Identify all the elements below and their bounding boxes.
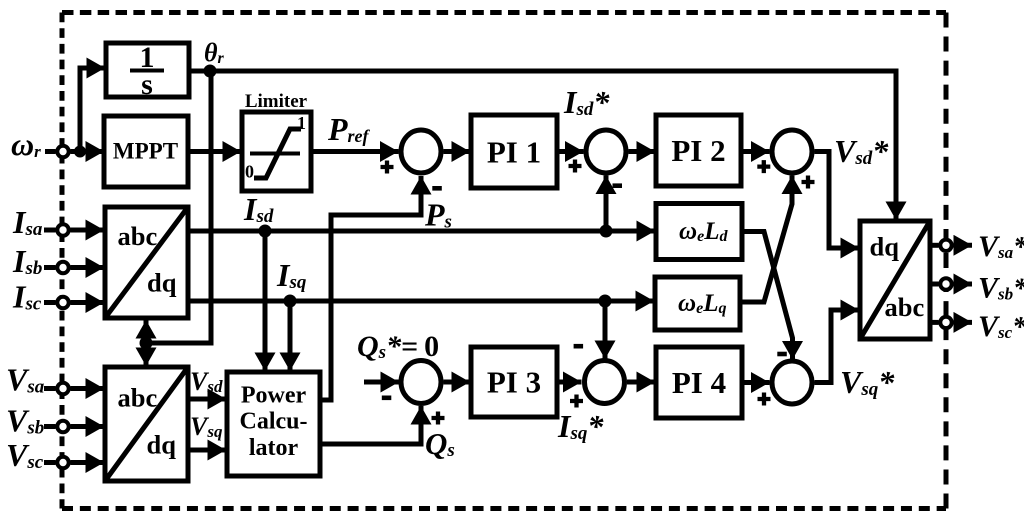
svg-text:Calcu-: Calcu- <box>240 409 308 435</box>
svg-text:abc: abc <box>885 292 925 322</box>
wire Pref limiter to sum1 <box>311 149 399 154</box>
summing junction sum3 <box>772 130 812 173</box>
wire Ps power calc to sum1 <box>320 176 421 400</box>
wire PI3 to sum6 <box>557 380 582 385</box>
dashed system boundary top <box>62 10 946 15</box>
wire Vsb* output stub <box>930 282 939 287</box>
terminal omega_r <box>57 146 68 157</box>
wire Vsq to power calculator <box>188 448 226 453</box>
wire weLd cross to sum7 <box>742 232 793 360</box>
wire theta to abc/dq 1 (arrow up) <box>144 320 149 343</box>
block abc/dq current transform <box>105 207 188 318</box>
wire PI2 to sum3 <box>741 149 770 154</box>
wire Vsc to abc/dq <box>71 460 105 465</box>
wire Vsc* output arrow <box>954 320 973 325</box>
wire MPPT to limiter <box>188 149 241 154</box>
limiter saturation curve <box>254 129 301 178</box>
svg-text:dq: dq <box>870 232 900 262</box>
wire weLq cross to sum3 <box>740 176 792 303</box>
sign minus sum5 <box>382 395 392 400</box>
wire omega_r branch to integrator <box>80 68 105 152</box>
wire sum1 to PI1 <box>444 149 471 154</box>
sign plus sum2 <box>569 160 582 173</box>
wire Vsa* output arrow <box>954 243 973 248</box>
wire Vsb to abc/dq <box>71 424 105 429</box>
terminal Isb <box>57 262 68 273</box>
terminal Isa <box>57 224 68 235</box>
wire Vsa to abc/dq <box>71 386 105 391</box>
wire Vsd* sum3 to dq/abc <box>815 152 860 249</box>
terminal Vsc <box>57 457 68 468</box>
block PI 4 <box>656 347 742 418</box>
svg-text:PI 2: PI 2 <box>671 133 725 168</box>
sign plus sum3 left <box>757 160 770 173</box>
wire Isq line to weLq <box>188 299 654 304</box>
summing junction sum2 <box>586 130 626 173</box>
junction dot Isd right <box>600 225 613 238</box>
wire Isb stub <box>44 265 56 270</box>
svg-text:PI 3: PI 3 <box>487 365 541 400</box>
svg-text:dq: dq <box>147 268 177 298</box>
junction dot Isq <box>284 295 297 308</box>
svg-text:Limiter: Limiter <box>245 91 308 112</box>
dashed system boundary bottom <box>62 506 946 511</box>
block weLd <box>656 204 742 260</box>
junction dot omega_r <box>74 146 86 158</box>
wire sum6 to PI4 <box>627 380 655 385</box>
wire Qs* reference input <box>364 380 399 385</box>
summing junction sum5 <box>401 361 441 404</box>
block integrator 1/s <box>106 43 189 97</box>
summing junction sum7 <box>772 361 812 404</box>
wire Vsb* output arrow <box>954 282 973 287</box>
wire Vsa stub <box>44 386 56 391</box>
wire omega_r to MPPT <box>71 149 105 154</box>
sign plus sum7 <box>758 393 771 406</box>
dashed system boundary right <box>944 13 949 509</box>
sign plus sum5 <box>432 412 445 425</box>
wire Isd line to weLd <box>188 229 655 234</box>
terminal Vsa <box>57 383 68 394</box>
sign minus sum1 <box>432 186 442 191</box>
svg-text:Qs*= 0: Qs*= 0 <box>357 330 439 363</box>
wire sum2 to PI2 <box>629 149 656 154</box>
block PI 3 <box>471 347 557 417</box>
svg-text:1: 1 <box>297 113 306 133</box>
sign minus sum2 <box>613 183 623 188</box>
svg-text:PI 1: PI 1 <box>487 135 541 170</box>
terminal Vsb <box>57 421 68 432</box>
wire Isd feedback up to sum2 <box>604 176 609 232</box>
svg-text:lator: lator <box>249 435 299 461</box>
svg-text:MPPT: MPPT <box>113 139 178 164</box>
wire PI1 to sum2 <box>557 149 584 154</box>
svg-text:0: 0 <box>245 162 254 182</box>
sign minus sum6 <box>574 344 584 349</box>
wire Qs power calc to sum5 <box>320 406 421 444</box>
diagonal dq/abc output <box>860 221 930 339</box>
summing junction sum1 <box>401 130 441 173</box>
wire theta_r drop to transforms <box>148 71 211 343</box>
wire Isq drop to power calculator <box>288 301 293 371</box>
wire PI4 to sum7 <box>742 380 770 385</box>
junction dot theta_r <box>204 65 217 78</box>
limiter axis <box>250 152 300 156</box>
terminal Vsb* <box>940 278 951 289</box>
svg-text:s: s <box>141 68 153 101</box>
block weLq <box>655 277 740 330</box>
svg-text:abc: abc <box>118 221 158 251</box>
wire Isa stub <box>44 228 56 233</box>
terminal Isc <box>57 297 68 308</box>
block PI 2 <box>656 115 741 186</box>
svg-text:PI 4: PI 4 <box>672 365 726 400</box>
wire Isa to abc/dq <box>71 228 105 233</box>
svg-text:dq: dq <box>147 430 177 460</box>
dashed system boundary left <box>60 13 65 509</box>
wire Vsd to power calculator <box>188 397 226 402</box>
junction dot Isd <box>259 225 272 238</box>
block abc/dq voltage transform <box>105 367 188 481</box>
junction dot Isq right <box>599 295 612 308</box>
block dq/abc output transform <box>860 221 930 339</box>
wire Isc to abc/dq <box>71 300 105 305</box>
block MPPT <box>104 116 188 187</box>
diagonal abc/dq 1 <box>105 207 188 318</box>
svg-text:Power: Power <box>241 383 307 409</box>
wire Vsc stub <box>44 460 56 465</box>
summing junction sum6 <box>585 361 625 404</box>
fraction bar of 1/s <box>130 69 164 73</box>
wire Isc stub <box>44 300 56 305</box>
block limiter <box>242 112 311 191</box>
svg-text:abc: abc <box>118 383 158 413</box>
wire sum5 to PI3 <box>444 380 471 385</box>
wire Vsb stub <box>44 424 56 429</box>
junction dot theta transform <box>140 337 153 350</box>
wire theta_r rail to dq/abc <box>189 71 896 220</box>
wire Isb to abc/dq <box>71 265 105 270</box>
wire Isd drop to power calculator <box>263 231 268 371</box>
block power calculator <box>227 372 320 476</box>
diagonal abc/dq 2 <box>105 367 188 481</box>
sign minus sum7 <box>777 352 787 357</box>
wire Vsc* output stub <box>930 320 939 325</box>
sign plus sum6 <box>570 395 583 408</box>
terminal Vsa* <box>940 240 951 251</box>
wire omega_r stub <box>45 149 56 154</box>
sign plus sum3 bottom <box>802 176 815 189</box>
sign plus sum1 <box>381 161 394 174</box>
block PI 1 <box>471 115 557 188</box>
wire Isq feedback down to sum6 <box>603 301 608 359</box>
wire Vsq* sum7 to dq/abc <box>815 310 860 383</box>
wire theta to abc/dq 2 (arrow down) <box>144 343 149 366</box>
terminal Vsc* <box>940 317 951 328</box>
wire Vsa* output stub <box>930 243 939 248</box>
